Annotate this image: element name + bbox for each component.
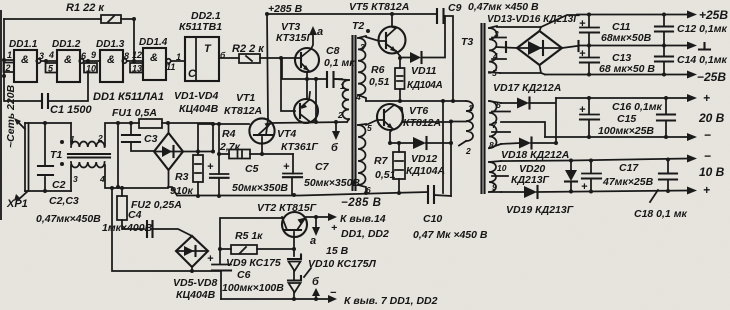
- wire left vertical: [3, 19, 5, 60]
- svg-text:К511ТВ1: К511ТВ1: [179, 21, 222, 33]
- svg-text:−: −: [704, 149, 711, 163]
- svg-text:С3: С3: [144, 133, 158, 145]
- rail 0V mid: [562, 46, 577, 48]
- diode VD17: [501, 102, 517, 104]
- svg-text:2: 2: [5, 63, 11, 73]
- svg-text:4: 4: [48, 50, 54, 60]
- flip-flop DD2.1: [185, 37, 219, 81]
- capacitor C7: [292, 154, 293, 195]
- svg-text:−285 В: −285 В: [341, 197, 381, 209]
- capacitor C2: [44, 123, 46, 191]
- svg-text:20 В: 20 В: [698, 111, 725, 125]
- svg-text:С14 0,1мк: С14 0,1мк: [677, 54, 728, 66]
- svg-text:КЦ404В: КЦ404В: [179, 103, 219, 115]
- svg-text:50мк×350В: 50мк×350В: [232, 182, 288, 194]
- svg-text:0,47 Мк ×450 В: 0,47 Мк ×450 В: [413, 229, 488, 241]
- svg-text:VD18 КД212А: VD18 КД212А: [501, 149, 569, 161]
- T3 tap pin4: [496, 47, 517, 48]
- svg-text:4: 4: [99, 174, 105, 184]
- diode VD19: [501, 191, 524, 193]
- capacitor C15: [588, 98, 590, 137]
- wire emitter node VT6: [390, 142, 413, 144]
- capacitor C6: [220, 249, 221, 299]
- svg-text:КД104А: КД104А: [406, 165, 445, 177]
- node a down arrow: [315, 217, 317, 231]
- diode VD11: [410, 52, 421, 63]
- svg-text:R1 22 к: R1 22 к: [66, 2, 105, 14]
- capacitor C16: [665, 98, 667, 137]
- wire base bus: [281, 58, 295, 111]
- svg-text:R7: R7: [374, 155, 389, 167]
- svg-text:15 В: 15 В: [326, 245, 349, 257]
- transistor VT3: [295, 48, 319, 72]
- svg-text:R6: R6: [371, 64, 385, 76]
- svg-text:VD9 КС175: VD9 КС175: [226, 257, 281, 269]
- svg-text:DD1 К511ЛА1: DD1 К511ЛА1: [93, 91, 164, 103]
- svg-text:13: 13: [132, 64, 142, 74]
- gate DD1.2: [57, 50, 80, 82]
- crossover vertical: [315, 79, 317, 122]
- svg-text:&: &: [21, 54, 29, 66]
- svg-text:1: 1: [70, 134, 75, 144]
- rail -10V: [501, 159, 688, 162]
- transistor VT1: [249, 118, 274, 143]
- svg-text:3: 3: [360, 42, 365, 52]
- svg-text:11: 11: [166, 62, 175, 72]
- capacitor C5: [218, 124, 220, 195]
- resistor R6: [399, 56, 401, 68]
- svg-text:С: С: [188, 68, 197, 80]
- svg-text:VТ6: VТ6: [409, 105, 428, 117]
- resistor R4: [219, 153, 229, 155]
- svg-text:0,1 мк: 0,1 мк: [324, 57, 355, 69]
- svg-text:R5 1к: R5 1к: [235, 230, 263, 242]
- svg-text:КД213Г: КД213Г: [511, 174, 550, 186]
- wire VT2 base from left: [220, 218, 282, 249]
- resistor R2: [239, 54, 260, 63]
- svg-text:12: 12: [132, 50, 142, 60]
- svg-text:DD1.3: DD1.3: [96, 39, 125, 50]
- svg-text:47мк×25В: 47мк×25В: [602, 176, 654, 188]
- capacitor C18: [667, 160, 669, 192]
- svg-text:R4: R4: [222, 128, 236, 140]
- svg-text:+: +: [331, 222, 337, 234]
- svg-text:DD1.1: DD1.1: [9, 39, 38, 50]
- svg-text:3: 3: [494, 29, 499, 39]
- svg-text:1мк×400В: 1мк×400В: [102, 222, 153, 234]
- wire verticals to rails: [443, 101, 451, 196]
- svg-text:VТ4: VТ4: [277, 128, 296, 140]
- svg-text:DD1.2: DD1.2: [52, 39, 81, 50]
- svg-text:К выв. 7 DD1, DD2: К выв. 7 DD1, DD2: [344, 295, 438, 307]
- svg-text:КД104А: КД104А: [407, 80, 443, 91]
- capacitor C10: [428, 186, 434, 203]
- transformer T3 core: [482, 24, 485, 193]
- transformer T2 winding 1-2: [343, 80, 350, 119]
- wire mains top: [25, 122, 71, 124]
- T3 winding 1-2: [466, 101, 473, 141]
- wire gate2-gate3: [84, 60, 100, 62]
- svg-text:+285 В: +285 В: [268, 3, 303, 15]
- svg-text:9: 9: [492, 182, 497, 192]
- diode VD18: [501, 143, 519, 144]
- svg-text:Т1: Т1: [50, 149, 62, 161]
- svg-text:+: +: [207, 253, 214, 265]
- bridge VD5-VD8: [176, 236, 208, 267]
- wire gate4-DD2.1: [171, 60, 185, 62]
- svg-text:б: б: [312, 276, 320, 288]
- transistor VT5: [379, 27, 406, 54]
- svg-text:С12 0,1мк: С12 0,1мк: [677, 23, 728, 35]
- svg-text:R2 2 к: R2 2 к: [232, 43, 265, 55]
- capacitor C9: [437, 9, 444, 23]
- wire node line y101: [366, 100, 466, 102]
- T3 winding 3-4-5: [489, 28, 496, 73]
- T3 winding 10-9: [489, 162, 496, 192]
- svg-text:10: 10: [497, 163, 507, 173]
- svg-text:VD11: VD11: [411, 65, 437, 77]
- svg-text:R3: R3: [175, 171, 189, 183]
- wire gate1-gate2: [41, 60, 57, 62]
- svg-text:С9: С9: [448, 2, 462, 14]
- T2 winding 3-4: [358, 38, 366, 95]
- rail +10V: [537, 191, 688, 193]
- node pin1 stub: [4, 59, 14, 61]
- svg-text:С7: С7: [315, 161, 330, 173]
- svg-text:3: 3: [39, 51, 44, 61]
- T2 core: [353, 36, 356, 190]
- svg-text:VD1-VD4: VD1-VD4: [174, 90, 219, 102]
- svg-text:С8: С8: [326, 45, 340, 57]
- svg-text:КТ812А: КТ812А: [224, 105, 262, 117]
- svg-text:а: а: [317, 26, 323, 38]
- svg-text:КТ812А: КТ812А: [403, 117, 441, 129]
- transistor VT6: [377, 104, 403, 130]
- connector XP1: [25, 123, 29, 191]
- svg-text:С2,С3: С2,С3: [49, 195, 79, 207]
- capacitor C13: [588, 46, 590, 75]
- svg-text:б: б: [331, 142, 339, 154]
- svg-text:С17: С17: [619, 162, 639, 174]
- wire collector VT6: [403, 121, 451, 123]
- svg-text:С2: С2: [52, 179, 66, 191]
- svg-text:VD12: VD12: [411, 153, 437, 165]
- svg-text:100мк×100В: 100мк×100В: [222, 282, 284, 294]
- svg-text:68мк×50В: 68мк×50В: [601, 32, 652, 44]
- svg-text:КЦ404В: КЦ404В: [176, 289, 216, 301]
- svg-text:0,47мк×450В: 0,47мк×450В: [36, 213, 101, 225]
- svg-text:С6: С6: [237, 269, 251, 281]
- emitter node wire: [282, 58, 327, 79]
- zener VD10: [288, 276, 301, 281]
- diode VD12: [413, 137, 426, 149]
- svg-text:DD1.4: DD1.4: [139, 37, 168, 48]
- svg-text:4: 4: [492, 51, 498, 61]
- wire left drop: [112, 188, 221, 271]
- svg-text:С16 0,1мк: С16 0,1мк: [612, 101, 663, 113]
- svg-text:−: −: [704, 128, 711, 142]
- rail +20V: [556, 97, 688, 99]
- svg-text:С1 1500: С1 1500: [50, 104, 92, 116]
- resistor R1: [101, 15, 121, 23]
- svg-text:VD10 КС175Л: VD10 КС175Л: [308, 258, 377, 270]
- svg-text:+: +: [703, 91, 710, 105]
- wire mains bottom: [25, 190, 71, 192]
- wire gate3-gate4: [127, 60, 143, 62]
- capacitor C12: [663, 15, 665, 46]
- bridge VD1-VD4: [154, 133, 183, 170]
- svg-text:1: 1: [468, 103, 473, 113]
- svg-text:+25В: +25В: [699, 8, 728, 22]
- svg-text:&: &: [107, 54, 115, 66]
- svg-text:0,51: 0,51: [375, 169, 396, 181]
- svg-text:VD17 КД212А: VD17 КД212А: [493, 82, 561, 94]
- wire AC2 drop: [117, 123, 119, 187]
- svg-text:VD19 КД213Г: VD19 КД213Г: [506, 204, 574, 216]
- T2 winding 5-6: [358, 125, 366, 185]
- resistor R5: [220, 248, 231, 250]
- svg-text:FU1 0,5А: FU1 0,5А: [112, 107, 157, 119]
- svg-text:С18 0,1 мк: С18 0,1 мк: [634, 208, 687, 220]
- wire emitter node VT5: [396, 51, 410, 58]
- svg-text:С5: С5: [245, 163, 259, 175]
- svg-text:−25В: −25В: [697, 70, 726, 84]
- svg-text:+: +: [283, 161, 290, 173]
- capacitor C8: [327, 72, 334, 87]
- svg-text:1: 1: [176, 52, 181, 62]
- svg-text:1: 1: [340, 81, 345, 91]
- svg-text:9: 9: [91, 50, 96, 60]
- node a arrow up: [311, 29, 313, 49]
- transistor VT2: [282, 212, 307, 237]
- svg-text:КТ361Г: КТ361Г: [281, 141, 319, 153]
- svg-text:DD1, DD2: DD1, DD2: [341, 228, 389, 240]
- svg-text:4: 4: [355, 92, 361, 102]
- svg-text:0,51: 0,51: [369, 76, 390, 88]
- rail -25V: [545, 74, 688, 76]
- svg-text:С4: С4: [128, 209, 142, 221]
- svg-text:ХР1: ХР1: [6, 198, 28, 210]
- svg-text:Т2: Т2: [352, 20, 364, 32]
- T3 winding 6-7-8: [489, 101, 497, 148]
- wire base line VT1: [198, 124, 249, 155]
- fuse FU2: [121, 187, 123, 196]
- svg-text:−: −: [330, 287, 337, 299]
- svg-text:2,7к: 2,7к: [219, 141, 241, 153]
- rail -285V: [168, 187, 428, 196]
- rail -20V: [545, 136, 688, 138]
- svg-text:С10: С10: [423, 213, 442, 225]
- svg-text:+: +: [581, 181, 588, 193]
- svg-text:VТ1: VТ1: [236, 92, 255, 104]
- svg-text:VТ2 КТ815Г: VТ2 КТ815Г: [257, 202, 317, 214]
- svg-text:6: 6: [496, 100, 501, 110]
- svg-text:2: 2: [465, 146, 471, 156]
- svg-text:VD5-VD8: VD5-VD8: [173, 277, 218, 289]
- capacitor C14: [663, 46, 665, 75]
- svg-text:&: &: [150, 52, 158, 64]
- svg-text:8: 8: [124, 51, 129, 61]
- capacitor C11: [588, 15, 590, 46]
- svg-text:+: +: [207, 161, 214, 173]
- wire DD2.1 out: [219, 57, 239, 59]
- svg-text:0,47мк ×450 В: 0,47мк ×450 В: [468, 1, 539, 13]
- svg-text:VТ5 КТ812А: VТ5 КТ812А: [349, 1, 409, 13]
- resistor R3: [193, 155, 203, 182]
- gate DD1.4: [143, 48, 166, 80]
- svg-text:К выв.14: К выв.14: [340, 213, 386, 225]
- svg-text:10 В: 10 В: [699, 165, 725, 179]
- capacitor C17: [590, 161, 592, 192]
- svg-text:3: 3: [73, 174, 78, 184]
- wire DC+: [183, 124, 213, 152]
- wire collector line VT4: [271, 122, 347, 123]
- svg-text:1: 1: [7, 50, 12, 60]
- wire AC top: [497, 15, 577, 27]
- svg-text:8: 8: [489, 140, 494, 150]
- svg-text:68 мк×50 В: 68 мк×50 В: [599, 63, 655, 75]
- svg-text:2: 2: [97, 133, 103, 143]
- svg-text:2: 2: [337, 110, 343, 120]
- svg-text:&: &: [64, 54, 72, 66]
- svg-text:а: а: [310, 235, 316, 247]
- svg-text:+: +: [703, 183, 710, 197]
- resistor R7: [398, 143, 400, 152]
- wire pin7: [501, 122, 545, 137]
- fuse FU1: [139, 119, 162, 128]
- capacitor C3: [131, 123, 154, 151]
- wire AC bottom: [500, 65, 545, 75]
- capacitor C4: [147, 221, 153, 237]
- wire bottom rail: [221, 298, 333, 300]
- svg-text:КТ315Г: КТ315Г: [276, 32, 314, 44]
- gate DD1.1: [14, 50, 37, 82]
- rail +285V: [267, 13, 437, 15]
- zener VD9: [288, 255, 301, 260]
- bridge VD13-VD16: [517, 31, 562, 65]
- capacitor C1: [4, 60, 88, 101]
- svg-text:100мк×25В: 100мк×25В: [598, 125, 654, 137]
- gate DD1.3: [100, 50, 123, 82]
- svg-text:Т3: Т3: [461, 36, 473, 48]
- transistor VT4: [294, 99, 318, 123]
- svg-text:~Сеть 220В: ~Сеть 220В: [5, 84, 17, 148]
- svg-text:5: 5: [492, 68, 497, 78]
- node b arrow down: [335, 122, 337, 134]
- svg-text:С15: С15: [617, 113, 636, 125]
- wire feedback top: [4, 19, 134, 62]
- left paper edge: [0, 10, 2, 220]
- rail +25V: [577, 14, 688, 16]
